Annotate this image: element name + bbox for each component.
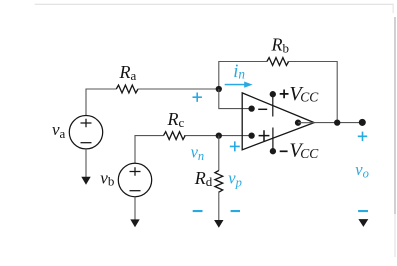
node voltage vp minus [231,210,240,212]
output terminal dot [359,119,366,126]
voltage source va [69,116,102,149]
ground arrow (vb) [130,219,139,227]
output voltage vo minus [358,210,368,212]
op-amp minus sign [258,108,267,110]
current arrow i_n [225,82,253,88]
resistor Rc [164,132,186,140]
resistor Rb [267,58,289,66]
node voltage vn minus [193,210,203,212]
wire: op-amp output [314,122,362,124]
node voltage vp plus [230,141,240,151]
resistor Rd [215,171,223,193]
noninverting input dot [248,132,254,138]
resistor Ra [116,85,138,93]
node n junction dot [216,86,222,92]
node p junction dot [216,132,222,138]
-VCC supply pin [270,128,276,155]
op-amp output terminal dot [295,120,301,126]
op-amp plus sign [259,130,270,141]
inverting input dot [248,105,254,111]
wire: internal output to apex [298,122,314,124]
wire: vb top to Rc [135,136,164,164]
wire: va bottom to ground [85,149,87,178]
label +VCC [280,83,320,105]
output voltage vo plus [358,132,367,141]
+VCC supply pin [270,91,276,116]
ground arrow (output reference) [358,219,368,227]
op-amp U1 triangle [242,93,314,150]
node voltage vn plus [193,93,202,102]
wire: node n up to Rb [219,62,267,90]
voltage source vb [118,163,151,196]
wire: vb bottom to ground [134,197,136,221]
wire: Rb to output node [288,62,338,123]
ground arrow (va) [81,177,90,185]
wire: va top to Ra [86,89,116,116]
label -VCC [280,140,320,162]
wire: Rc to noninverting input [184,135,252,137]
wire: node p down to Rd [218,136,220,171]
ground arrow (Rd) [214,220,223,228]
wire: Rd to ground [218,191,220,221]
output node dot (feedback junction) [334,119,340,125]
wire: Ra to node n (inverting) [138,88,219,90]
wire: node n to inverting input [219,89,252,109]
